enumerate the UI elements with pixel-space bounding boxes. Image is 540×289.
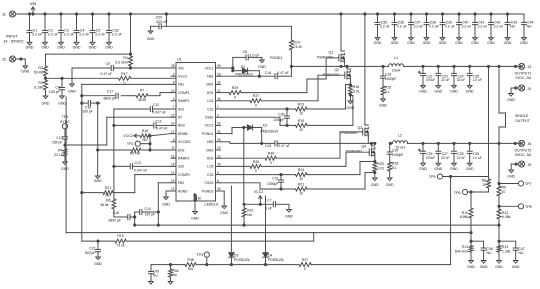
svg-text:470uF: 470uF [426,78,435,82]
svg-text:9.1: 9.1 [385,90,390,94]
capacitor C26 470uF [418,143,435,170]
svg-text:36.5k: 36.5k [138,98,147,102]
svg-text:7VDC, 4A: 7VDC, 4A [515,76,532,80]
svg-text:12: 12 [171,187,175,191]
capacitor C18 100pF [81,96,100,114]
svg-text:6.08k: 6.08k [502,215,511,219]
svg-text:GND: GND [374,41,382,45]
svg-text:J6: J6 [528,142,532,146]
svg-text:1000pF: 1000pF [385,77,397,81]
svg-text:PGND1: PGND1 [202,132,214,136]
svg-text:GND: GND [507,175,515,179]
svg-text:GND: GND [41,45,49,49]
svg-text:R19: R19 [298,119,304,123]
capacitor C41 2.2 uF [471,14,487,45]
svg-text:R15: R15 [117,234,123,238]
svg-text:J5: J5 [528,163,532,167]
testpoint TP8 [498,204,532,209]
svg-text:0.47 uF: 0.47 uF [277,71,289,75]
svg-text:10: 10 [299,192,303,196]
ground C8 [58,96,66,106]
testpoint TP7 [498,181,532,186]
svg-text:VCC2: VCC2 [254,190,264,194]
svg-text:0.47 uF: 0.47 uF [156,127,168,131]
svg-text:NU: NU [153,274,158,278]
capacitor C8 100pF [49,78,65,96]
svg-text:1: 1 [217,105,219,109]
svg-text:470uF: 470uF [426,156,435,160]
capacitor C25 1.0 uF [466,66,482,93]
wire J4 gnd [511,87,519,94]
capacitor C21 820pF [85,241,101,257]
wire CS1 sense [221,85,351,111]
svg-text:GND: GND [450,89,458,93]
svg-text:R28: R28 [253,160,259,164]
ground R16 [347,101,355,110]
ground C45 [149,282,154,285]
capacitor C34 1000pF snubber2 [387,143,403,162]
svg-text:1 uF: 1 uF [265,207,272,211]
svg-text:SW2: SW2 [206,148,213,152]
svg-text:UVLO: UVLO [178,75,187,79]
svg-text:R29: R29 [232,86,238,90]
svg-text:17: 17 [171,130,175,134]
svg-text:2.2 uF: 2.2 uF [64,32,74,36]
capacitor C2 2.2uF [41,14,58,49]
svg-text:2.2 uF: 2.2 uF [112,32,122,36]
svg-text:C13: C13 [135,161,141,165]
svg-text:3.9 ohm: 3.9 ohm [115,61,128,65]
wire left loop C R15 [82,103,314,242]
svg-text:10: 10 [299,177,303,181]
svg-text:10: 10 [502,190,506,194]
svg-text:OUTPUT: OUTPUT [515,119,531,123]
net VIN arrow [30,1,37,13]
svg-text:GND: GND [507,98,515,102]
svg-text:23: 23 [217,146,221,150]
wire bottom rail [151,177,451,266]
svg-text:C12: C12 [153,103,159,107]
svg-text:FB2: FB2 [178,181,184,185]
resistor R13 1.33k [497,225,511,260]
transistor Q3 PSMN4R3-30YS [341,14,368,143]
svg-text:R20: R20 [378,162,384,166]
resistor R5 NU [97,148,171,156]
resistor R38 NU [185,258,196,271]
svg-text:1.0 uF: 1.0 uF [473,78,482,82]
wire RT line [65,117,171,145]
svg-text:SW1: SW1 [206,83,213,87]
svg-text:VCC1: VCC1 [205,66,214,70]
capacitor C39 2.2 uF [439,14,455,45]
svg-text:R21: R21 [105,186,111,190]
svg-text:R23: R23 [298,102,304,106]
svg-text:J3: J3 [528,65,532,69]
svg-text:6800 pF: 6800 pF [104,97,116,101]
resistor R23 10 [296,102,308,115]
svg-text:14 - 55VDC: 14 - 55VDC [3,39,24,44]
resistor R3 6.19k [34,80,47,96]
svg-text:D1: D1 [241,65,245,69]
inductor L1 15uH [389,56,404,73]
wire CS2 sense [221,162,375,176]
svg-text:NU: NU [519,251,524,255]
svg-text:PGND1: PGND1 [270,56,282,60]
ground J2 [21,66,29,74]
svg-text:J4: J4 [528,87,532,91]
svg-text:PDS5120L: PDS5120L [268,258,285,262]
terminal J6 output2 [514,140,531,146]
ground AGND [162,197,170,207]
diode D1 PMEG6010 [232,65,261,77]
svg-text:D3: D3 [234,254,238,258]
svg-text:GND: GND [391,41,399,45]
label OUTPUT1 [515,72,532,81]
terminal J4 return1 [519,85,532,91]
ground R13 [495,261,503,270]
svg-text:GND: GND [89,45,97,49]
diode D2 PMEG6010 [243,123,278,143]
svg-text:2.2 uF: 2.2 uF [494,24,504,28]
svg-text:RAMP2: RAMP2 [178,157,190,161]
svg-text:2.2 uF: 2.2 uF [462,24,472,28]
svg-text:C7: C7 [267,199,271,203]
svg-text:NU: NU [510,24,515,28]
ground R20 [371,178,379,187]
svg-text:C6: C6 [243,50,247,54]
svg-text:GND: GND [220,211,228,215]
svg-text:GND: GND [439,41,447,45]
svg-text:5: 5 [217,171,219,175]
svg-text:R6: R6 [106,199,110,203]
resistor R26 9.1 [388,162,399,179]
resistor R22b 10 [296,182,308,195]
svg-text:22.1k: 22.1k [54,153,63,157]
capacitor C4 2.2uF [73,14,90,49]
svg-text:18: 18 [171,163,175,167]
svg-text:COMP2: COMP2 [178,173,190,177]
svg-text:CSB1: CSB1 [205,116,214,120]
svg-text:C11: C11 [156,120,162,124]
svg-text:NU: NU [143,138,148,142]
svg-text:Q2: Q2 [334,68,339,72]
capacitor C17 6800pF [104,90,119,101]
capacitor C16 0.47uF [265,71,289,79]
svg-text:0: 0 [255,169,257,173]
wire VIN pin line [114,67,176,69]
ground R4 [61,162,69,171]
svg-text:GND: GND [347,106,355,110]
ground DAP [191,212,199,221]
capacitor C3 2.2uF [57,14,74,49]
wire OUT2 rail [408,142,522,144]
svg-text:R4: R4 [58,149,62,153]
svg-text:HO2: HO2 [207,157,214,161]
wire VIN rail top [16,13,525,15]
svg-text:GND: GND [455,41,463,45]
resistor R19 10 [296,119,308,132]
svg-text:TP8: TP8 [525,205,532,209]
svg-text:6: 6 [217,179,219,183]
svg-text:TP5: TP5 [429,175,436,179]
svg-text:28: 28 [171,64,175,68]
svg-text:GND: GND [73,45,81,49]
svg-text:RAMP1: RAMP1 [178,99,190,103]
capacitor C35 2.2uF [374,14,390,45]
svg-text:GND: GND [386,183,394,187]
svg-text:PDS5120L: PDS5120L [234,258,251,262]
svg-text:8: 8 [173,81,175,85]
svg-text:D2: D2 [263,123,267,127]
svg-text:10: 10 [171,89,175,93]
transistor Q1 PSMN4R3-30YS [317,14,344,66]
svg-text:U1: U1 [177,58,182,62]
svg-text:GND: GND [407,41,415,45]
resistor R25 9.1 [381,86,391,100]
resistor R17 0 [119,72,131,86]
resistor R24 10 [296,168,308,181]
svg-text:GND: GND [94,179,102,183]
wire LO2 gate [221,152,370,166]
capacitor C27 22 uF [434,143,449,170]
capacitor C29 1.0 uF [466,143,482,170]
capacitor C28 22 uF [450,143,465,170]
svg-text:0: 0 [304,267,306,271]
junction VIN rail [28,13,508,15]
capacitor C7 1uF [265,199,289,211]
svg-text:GND: GND [105,45,113,49]
svg-text:73.2k: 73.2k [116,244,125,248]
label SINGLE OUTPUT [515,114,531,123]
resistor R6 36.5k [100,199,116,218]
wire VCC2 pin [221,128,244,134]
svg-text:NU: NU [173,273,178,277]
svg-text:0.47 uF: 0.47 uF [278,144,290,148]
resistor R18 NU [140,129,171,142]
ground C46 [480,261,488,270]
capacitor C23 22 uF [434,66,449,93]
svg-text:14: 14 [171,122,175,126]
svg-text:R3: R3 [38,81,43,85]
svg-text:Q1: Q1 [328,51,333,55]
resistor R28 0 [250,160,261,173]
svg-text:FB1: FB1 [178,83,184,87]
svg-text:Q3: Q3 [357,126,362,130]
svg-text:SS2: SS2 [178,165,184,169]
wire D4 net [265,196,267,253]
capacitor C47 NU [499,241,525,260]
resistor R30 0 [265,152,276,165]
inductor L2 15uH [393,134,408,150]
capacitor C11 0.47uF [114,120,171,131]
capacitor C40 2.2 uF [455,14,471,45]
svg-text:R17: R17 [121,72,128,76]
svg-text:R1: R1 [123,56,128,60]
svg-text:C19: C19 [265,144,271,148]
wire FB2 comp [157,183,171,225]
svg-text:HO1: HO1 [207,91,214,95]
wire line A [134,224,500,226]
svg-text:GND: GND [487,41,495,45]
svg-text:LO2: LO2 [207,165,213,169]
svg-text:CS1: CS1 [207,107,214,111]
svg-text:15 uH: 15 uH [395,146,405,150]
svg-text:19: 19 [171,179,175,183]
svg-text:GND: GND [466,167,474,171]
svg-text:R21: R21 [298,182,304,186]
svg-text:2.2 uF: 2.2 uF [478,24,488,28]
wire AGND [166,191,171,197]
svg-text:56.4K: 56.4K [34,71,44,75]
ground R25 [379,99,387,108]
svg-text:9.1: 9.1 [392,166,397,170]
svg-text:NU: NU [188,267,193,271]
svg-text:0: 0 [124,82,126,86]
capacitor C44 NU [520,14,533,45]
svg-text:VCC2: VCC2 [123,134,133,138]
wire VIN to R2 [46,14,132,66]
svg-text:6.98k: 6.98k [460,215,469,219]
capacitor C43 NU [504,14,517,45]
svg-text:GND: GND [94,262,102,266]
svg-text:6800 pF: 6800 pF [109,219,121,223]
svg-text:GND: GND [520,41,528,45]
terminal J3 output1 [514,63,531,69]
svg-text:COMP1: COMP1 [178,91,190,95]
svg-text:RES: RES [178,124,186,128]
svg-text:GND: GND [450,167,458,171]
svg-text:RT: RT [178,116,182,120]
svg-text:GND: GND [162,203,170,207]
capacitor C31 1000pF [267,175,284,189]
resistor R14 73.2k [289,26,302,66]
svg-text:GND: GND [42,102,50,106]
svg-text:9: 9 [173,138,175,142]
svg-text:PMEG6010: PMEG6010 [261,130,279,134]
wire FB1 comp [81,84,171,96]
svg-text:150 pF: 150 pF [52,141,63,145]
svg-text:GND: GND [191,217,199,221]
wire out1 sense bus [488,66,490,176]
svg-text:2.2 uF: 2.2 uF [95,32,105,36]
svg-text:R16: R16 [353,85,359,89]
wire SW1 node [291,65,388,67]
svg-text:C10: C10 [56,136,62,140]
svg-text:GND: GND [466,89,474,93]
svg-text:L1: L1 [394,56,398,60]
svg-text:GND: GND [480,265,488,269]
resistor R27 0 [250,94,261,107]
svg-text:10: 10 [299,128,303,132]
wire out2 sense bus [498,143,500,186]
svg-text:10: 10 [482,183,486,187]
svg-text:C17: C17 [107,90,113,94]
op-amp U1 LM5119 controller [171,58,221,212]
capacitor C30 1000pF [273,109,290,125]
ground J5 [507,170,515,179]
net VCC2 arrow [243,128,273,206]
svg-text:36.5k: 36.5k [100,203,109,207]
svg-text:100 pF: 100 pF [145,213,156,217]
svg-text:GND: GND [423,41,431,45]
svg-text:GND: GND [379,104,387,108]
svg-text:R14: R14 [294,41,300,45]
svg-text:0: 0 [270,161,272,165]
svg-text:NU: NU [487,251,492,255]
ground R11 [467,261,475,270]
svg-text:100 pF: 100 pF [82,109,93,113]
resistor R12 6.08k [497,206,511,226]
svg-text:EN2: EN2 [178,148,185,152]
diode D3 PDS5120L [229,253,251,265]
svg-text:22 uF: 22 uF [441,156,449,160]
resistor R36 NU [169,265,179,282]
svg-text:GND: GND [371,183,379,187]
terminal J2 input - [2,56,16,62]
ground C7 [285,210,293,219]
svg-text:1000pF: 1000pF [267,182,279,186]
resistor R7 36.5k [136,88,148,102]
svg-text:2.2 uF: 2.2 uF [32,32,42,36]
wire left loop B [66,97,471,233]
svg-text:R30: R30 [268,152,274,156]
resistor R10 6.98k [460,192,473,234]
svg-text:DEMB: DEMB [178,132,188,136]
ground R3 [42,96,50,106]
svg-text:1000pF: 1000pF [392,153,404,157]
svg-text:4: 4 [173,97,175,101]
svg-text:15: 15 [171,113,175,117]
svg-text:0: 0 [234,96,236,100]
svg-text:820 pF: 820 pF [85,251,96,255]
resistor R8 10 [471,177,491,193]
capacitor C15 6800pF [109,211,135,225]
svg-text:73.2k: 73.2k [294,45,303,49]
svg-text:1.0 uF: 1.0 uF [250,53,260,57]
svg-text:AGND: AGND [178,189,188,193]
resistor R29 0 [229,86,241,100]
svg-text:GND: GND [258,65,266,69]
svg-text:GND: GND [504,41,512,45]
svg-text:1.0 uF: 1.0 uF [473,156,482,160]
wire CSG2 sense [221,173,375,191]
svg-text:13: 13 [171,171,175,175]
svg-text:2.2 uF: 2.2 uF [429,24,439,28]
svg-text:24: 24 [217,122,221,126]
terminal J5 return2 [519,161,532,167]
svg-text:GND: GND [147,37,155,41]
testpoint TP2 [127,135,151,150]
wire PGND2 [221,191,225,206]
svg-text:Q4: Q4 [361,145,366,149]
resistor R1 3.9 ohm [115,54,133,69]
svg-text:1000pF: 1000pF [273,118,285,122]
svg-text:PGND2: PGND2 [202,189,214,193]
wire VIN to C20 rail [162,14,292,26]
ground R36 [168,282,173,285]
svg-text:OUTPUT1: OUTPUT1 [515,72,532,76]
wire VCC1 [221,57,263,69]
svg-text:2.2 uF: 2.2 uF [397,24,407,28]
svg-text:R22: R22 [247,209,253,213]
svg-text:C15: C15 [113,211,119,215]
svg-text:GND: GND [434,89,442,93]
resistor R20 0.01 [373,160,384,178]
svg-text:GND: GND [419,167,427,171]
svg-text:LM5119: LM5119 [205,203,218,207]
capacitor C24 22 uF [450,66,465,93]
svg-text:C14: C14 [145,207,151,211]
